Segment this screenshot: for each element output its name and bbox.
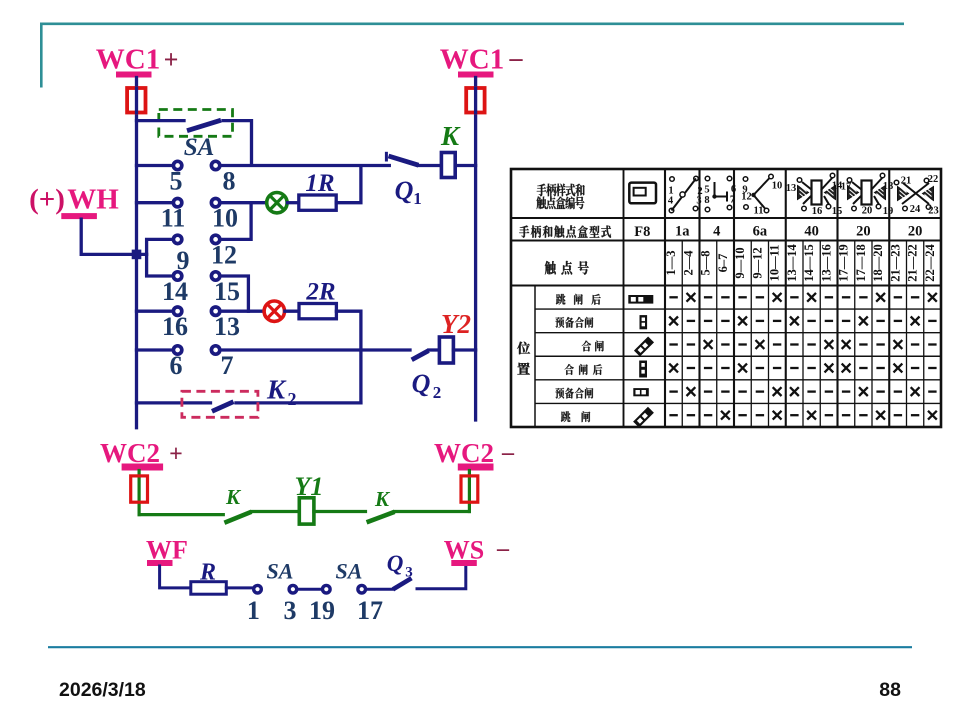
SA contact circles left column	[173, 161, 181, 354]
table label 位置	[517, 342, 530, 375]
SA contact circles right column	[211, 161, 219, 354]
svg-text:K: K	[374, 487, 391, 511]
wire bracket contacts 9-14	[147, 239, 171, 276]
label 2R	[305, 279, 335, 306]
table header label 触点号	[545, 261, 589, 275]
svg-text:9: 9	[177, 246, 190, 275]
SA contact number labels	[161, 167, 240, 381]
svg-text:4: 4	[713, 224, 720, 240]
wire WC2 right segment	[395, 510, 469, 513]
svg-text:4: 4	[668, 196, 674, 207]
node WS terminal bar	[451, 560, 477, 566]
bus WC1+ label	[96, 44, 179, 76]
wire WC2 left segment	[139, 513, 223, 516]
fuse FU4 on WC2-	[461, 471, 478, 512]
svg-text:15: 15	[214, 277, 240, 306]
svg-text:17: 17	[357, 596, 383, 625]
svg-text:20: 20	[908, 224, 923, 240]
table position icon row2 (vertical)	[640, 315, 648, 329]
switch K2 contact wire	[137, 401, 361, 404]
junction WH x left bus	[132, 250, 142, 260]
bus WC2- label	[434, 438, 515, 468]
svg-text:2: 2	[433, 383, 442, 402]
wire row 11-10 stub	[137, 201, 266, 204]
table diagram cell 4 (contacts 5-8)	[704, 176, 736, 212]
slide frame left line	[40, 23, 43, 88]
switch K2 blade	[212, 402, 234, 412]
svg-text:1a: 1a	[675, 224, 690, 240]
svg-text:19: 19	[309, 596, 335, 625]
wire WF drop	[160, 566, 191, 588]
svg-text:1: 1	[247, 596, 260, 625]
label Y1	[295, 472, 324, 501]
switch K contact 1 blade (green)	[224, 512, 251, 523]
switch SA master contact wire	[137, 121, 252, 164]
resistor R	[191, 582, 227, 595]
svg-text:13—14: 13—14	[785, 244, 799, 282]
svg-text:40: 40	[804, 224, 819, 240]
svg-text:+: +	[164, 45, 179, 74]
svg-text:SA: SA	[336, 559, 363, 584]
table marks matrix	[669, 293, 937, 420]
node WF terminal bar	[147, 560, 173, 566]
wire jumper contacts 3-19	[298, 588, 322, 591]
table row label 预备合闸 (2)	[555, 388, 593, 399]
svg-text:17—19: 17—19	[837, 244, 851, 282]
table row label 预备合闸	[555, 317, 593, 328]
table position icon row3 (diagonal)	[634, 336, 654, 356]
svg-text:21—23: 21—23	[888, 244, 902, 282]
svg-text:2—4: 2—4	[681, 250, 695, 276]
svg-text:–: –	[501, 440, 515, 466]
node WF label	[146, 536, 188, 565]
contact table grid	[511, 169, 941, 427]
svg-text:21—22: 21—22	[906, 244, 920, 282]
table type labels 1a 4 6a 40 20 20	[675, 224, 922, 240]
svg-text:8: 8	[704, 195, 709, 206]
table position icon row6 (diagonal)	[633, 407, 654, 428]
svg-text:11: 11	[754, 206, 764, 217]
svg-text:Q: Q	[412, 369, 431, 398]
fuse FU2 on WC1- bus	[466, 88, 484, 113]
lamp HG green indicator	[267, 193, 287, 213]
svg-text:16: 16	[162, 312, 188, 341]
bus WC1- label	[440, 44, 524, 76]
svg-text:–: –	[509, 44, 524, 73]
wire row 16-13 stub	[137, 310, 264, 313]
switch Q3 blade	[393, 578, 412, 589]
svg-text:20: 20	[862, 206, 873, 217]
svg-text:20: 20	[856, 224, 871, 240]
switch Q2 auxiliary contact	[412, 350, 440, 360]
table row label 合闸	[582, 341, 604, 352]
table diagram cell 40 (contacts 13-16)	[786, 173, 843, 217]
svg-text:10: 10	[212, 204, 238, 233]
svg-text:6–7: 6–7	[716, 254, 730, 273]
svg-text:5: 5	[704, 185, 709, 196]
svg-text:18: 18	[883, 181, 894, 192]
table row label 跳闸后	[556, 294, 601, 305]
node WH terminal bar	[61, 213, 97, 219]
table contact number column labels (rotated)	[664, 244, 937, 282]
bus WC1- terminal bar	[458, 72, 494, 78]
svg-text:7: 7	[221, 351, 234, 380]
svg-text:2026/3/18: 2026/3/18	[59, 679, 146, 701]
svg-text:K: K	[440, 121, 461, 151]
svg-text:Y2: Y2	[441, 309, 471, 339]
svg-text:24: 24	[910, 204, 921, 215]
table handle icon F8	[629, 183, 656, 204]
svg-text:7: 7	[730, 195, 735, 206]
svg-text:17: 17	[841, 182, 852, 193]
fuse FU1 on WC1+ bus	[127, 88, 145, 113]
label K contact 1	[225, 485, 242, 509]
wire contact 17 to Q3	[366, 588, 392, 591]
relay coil K	[441, 153, 475, 178]
wire from Y1	[314, 510, 366, 513]
svg-text:WH: WH	[67, 183, 119, 215]
svg-text:9—12: 9—12	[750, 247, 764, 278]
svg-text:–: –	[496, 536, 510, 562]
bus WC2- terminal bar	[458, 464, 494, 471]
footer date	[59, 679, 146, 701]
table position icon row5 (horizontal)	[633, 388, 649, 396]
wire Q3 to WS	[417, 566, 466, 589]
contact number labels 1 3 19 17	[247, 596, 383, 625]
resistor 2R	[285, 304, 361, 403]
svg-text:21: 21	[901, 176, 912, 187]
svg-text:3: 3	[284, 596, 297, 625]
wire to Y1	[252, 510, 299, 513]
svg-text:88: 88	[879, 679, 901, 701]
svg-text:13: 13	[214, 312, 240, 341]
label K contact 2	[374, 487, 391, 511]
label Q1	[395, 176, 422, 208]
switch SA master dashed enclosure	[159, 110, 233, 137]
switch Q1 auxiliary contact	[386, 152, 441, 166]
footer divider line	[48, 646, 912, 648]
svg-text:K: K	[266, 375, 287, 405]
svg-text:Q: Q	[395, 176, 414, 205]
svg-text:3: 3	[696, 196, 701, 207]
label K2	[266, 375, 297, 410]
table header label 手柄和触点盒型式	[519, 225, 611, 237]
switch K contact 2 blade (green)	[367, 512, 395, 523]
table header label F8	[634, 224, 650, 240]
SA contact circles bottom row	[254, 585, 366, 593]
svg-text:6: 6	[731, 184, 736, 195]
svg-text:13—16: 13—16	[819, 244, 833, 282]
label Y2	[441, 309, 471, 339]
svg-text:10—11: 10—11	[768, 245, 782, 282]
svg-text:WC1: WC1	[96, 44, 160, 76]
svg-text:2: 2	[288, 389, 297, 409]
svg-text:23: 23	[928, 206, 939, 217]
wire row 6-7 stub	[137, 348, 411, 351]
svg-text:8: 8	[223, 167, 236, 196]
label K (relay)	[440, 121, 461, 151]
svg-text:K: K	[225, 485, 242, 509]
wire R to contact 1	[226, 586, 253, 589]
svg-text:18—20: 18—20	[871, 244, 885, 282]
svg-text:2R: 2R	[305, 279, 335, 306]
svg-text:SA: SA	[184, 134, 215, 161]
label 1R	[305, 170, 334, 197]
table diagram cell 20 (contacts 17-20)	[841, 173, 894, 217]
svg-text:SA: SA	[267, 559, 294, 584]
bus WC1+ terminal bar	[116, 72, 152, 78]
table diagram cell 6a (contacts 9-12)	[741, 174, 782, 216]
table diagram cell 1a (contacts 1-4)	[668, 176, 703, 213]
wire WH feed	[81, 219, 146, 254]
fuse FU3 on WC2+	[131, 471, 148, 515]
label SA (contacts 1-3)	[267, 559, 294, 584]
svg-text:14—15: 14—15	[802, 244, 816, 282]
svg-text:22—24: 22—24	[923, 244, 937, 282]
svg-text:13: 13	[786, 183, 797, 194]
table diagram cell 20b (contacts 21-24)	[894, 174, 939, 217]
svg-text:WC1: WC1	[440, 44, 504, 76]
switch K2 dashed enclosure	[182, 391, 258, 417]
node (+)WH label	[29, 183, 119, 215]
svg-text:19: 19	[883, 206, 894, 217]
svg-text:F8: F8	[634, 224, 650, 240]
svg-text:1R: 1R	[305, 170, 334, 197]
svg-text:11: 11	[161, 204, 186, 233]
label Q2	[412, 369, 442, 402]
switch SA master blade	[187, 120, 221, 131]
svg-text:17—18: 17—18	[854, 244, 868, 282]
svg-text:12: 12	[211, 240, 237, 269]
svg-text:22: 22	[928, 174, 939, 185]
footer page number	[879, 679, 901, 701]
lamp HR red indicator	[264, 301, 284, 321]
svg-text:(+): (+)	[29, 183, 65, 215]
svg-text:6a: 6a	[753, 224, 768, 240]
svg-text:1: 1	[413, 189, 422, 208]
table position icon row4 (vertical)	[639, 361, 647, 378]
svg-text:12: 12	[741, 192, 752, 203]
svg-text:14: 14	[162, 277, 188, 306]
wire jumper contacts 15-13	[222, 276, 249, 311]
label R	[199, 560, 216, 586]
solenoid coil Y1 (green)	[299, 498, 314, 524]
table position icon row1 (horizontal)	[628, 295, 653, 304]
svg-text:15: 15	[832, 206, 843, 217]
label SA (master switch)	[184, 134, 215, 161]
wire bus WC1- vertical (right bus)	[474, 78, 477, 421]
resistor 1R	[288, 167, 361, 210]
table row label 跳闸	[561, 411, 590, 422]
svg-text:1—3: 1—3	[664, 251, 678, 276]
wire bus WC1+ vertical (left bus)	[135, 78, 138, 428]
svg-text:Q: Q	[387, 551, 404, 576]
svg-text:5: 5	[170, 167, 183, 196]
bus WC2+ terminal bar	[122, 464, 164, 471]
wire top rail (row 5-8 to Q1)	[137, 164, 390, 167]
label SA (contacts 19-17)	[336, 559, 363, 584]
table row label 合闸后	[565, 364, 603, 375]
svg-text:6: 6	[170, 351, 183, 380]
bus WC2+ label	[100, 438, 183, 468]
slide frame top line	[40, 22, 904, 25]
svg-text:+: +	[169, 442, 183, 468]
wire jumper contacts 10-12	[222, 203, 251, 240]
svg-text:9—10: 9—10	[733, 247, 747, 278]
solenoid coil Y2	[439, 337, 475, 363]
svg-text:10: 10	[772, 181, 783, 192]
svg-text:5—8: 5—8	[699, 251, 713, 276]
node WS label	[444, 536, 510, 565]
label Q3	[387, 551, 413, 581]
svg-text:16: 16	[812, 206, 823, 217]
table header label 手柄样式和/触点盒编号	[536, 184, 584, 210]
